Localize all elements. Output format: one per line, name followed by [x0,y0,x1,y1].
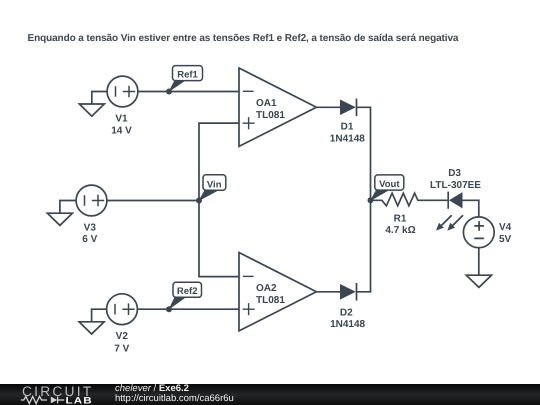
resistor R1 [371,193,448,206]
svg-text:LTL-307EE: LTL-307EE [430,180,481,191]
node Ref2 junction [166,306,172,312]
V1 value labels [111,114,132,137]
wire D2 cathode to Vout net [357,201,371,292]
svg-text:R1: R1 [394,213,407,224]
wire V3 to Vin node [107,200,199,202]
ground for V4 [466,275,491,287]
D3 value labels [430,168,481,191]
ground for V1 [79,92,107,117]
voltage source V4 [463,217,494,248]
wire D3 anode to V4 [463,200,479,217]
svg-text:6 V: 6 V [82,234,97,245]
flag Vout [370,175,404,201]
CircuitLab logo [0,384,110,405]
svg-text:Vin: Vin [207,179,222,190]
OA1 labels [256,98,285,121]
wire OA1 output to D1 anode [316,106,340,108]
diode D2 [340,283,357,301]
svg-text:1N4148: 1N4148 [330,319,365,330]
wire V1 to OA1 inverting input [138,91,239,93]
svg-text:7 V: 7 V [114,343,129,354]
title text [28,33,459,44]
D1 value labels [330,122,365,145]
node Ref1 junction [166,89,172,95]
svg-text:D2: D2 [340,307,353,318]
svg-text:V4: V4 [499,222,512,233]
svg-text:14 V: 14 V [111,126,132,137]
wire V4 to ground [478,248,480,275]
ground for V3 [47,201,76,226]
flag Ref1 [168,66,202,93]
svg-text:D1: D1 [341,122,354,133]
svg-text:TL081: TL081 [256,295,285,306]
svg-text:LAB: LAB [66,395,93,405]
op-amp OA2 [239,253,316,331]
svg-text:V1: V1 [115,114,128,125]
svg-text:D3: D3 [448,168,461,179]
V3 value labels [82,223,97,245]
svg-text:TL081: TL081 [256,110,285,121]
node Vin junction [196,198,202,204]
flag Ref2 [168,282,201,310]
svg-text:5V: 5V [499,234,512,245]
V2 value labels [114,331,129,354]
voltage source V2 [107,294,138,325]
wire OA2 output to D2 anode [316,291,340,293]
svg-text:4.7 kΩ: 4.7 kΩ [385,225,415,236]
op-amp OA1 [239,68,316,146]
LED D3 [436,192,463,231]
flag Vin [198,175,226,202]
svg-text:Ref2: Ref2 [177,286,198,297]
svg-text:Vout: Vout [379,179,400,190]
R1 value labels [385,213,415,236]
svg-text:V2: V2 [116,331,129,342]
ground for V2 [79,309,107,334]
voltage source V3 [76,185,107,216]
diode D1 [340,99,357,117]
voltage source V1 [107,76,138,107]
D2 value labels [330,307,365,330]
svg-text:OA1: OA1 [256,98,277,109]
footer credit text [115,384,234,403]
svg-text:V3: V3 [84,223,97,234]
V4 value labels [499,222,512,245]
wire Vin net vertical (OA1 + input to OA2 - input) [199,123,239,277]
node Vout junction [368,197,374,203]
OA2 labels [256,283,285,306]
svg-text:OA2: OA2 [256,283,277,294]
footer bar [0,384,540,405]
svg-text:Ref1: Ref1 [177,69,198,80]
wire D1 cathode to Vout net [357,107,371,200]
svg-text:1N4148: 1N4148 [330,134,365,145]
wire V2 to OA2 non-inverting input [137,308,239,310]
